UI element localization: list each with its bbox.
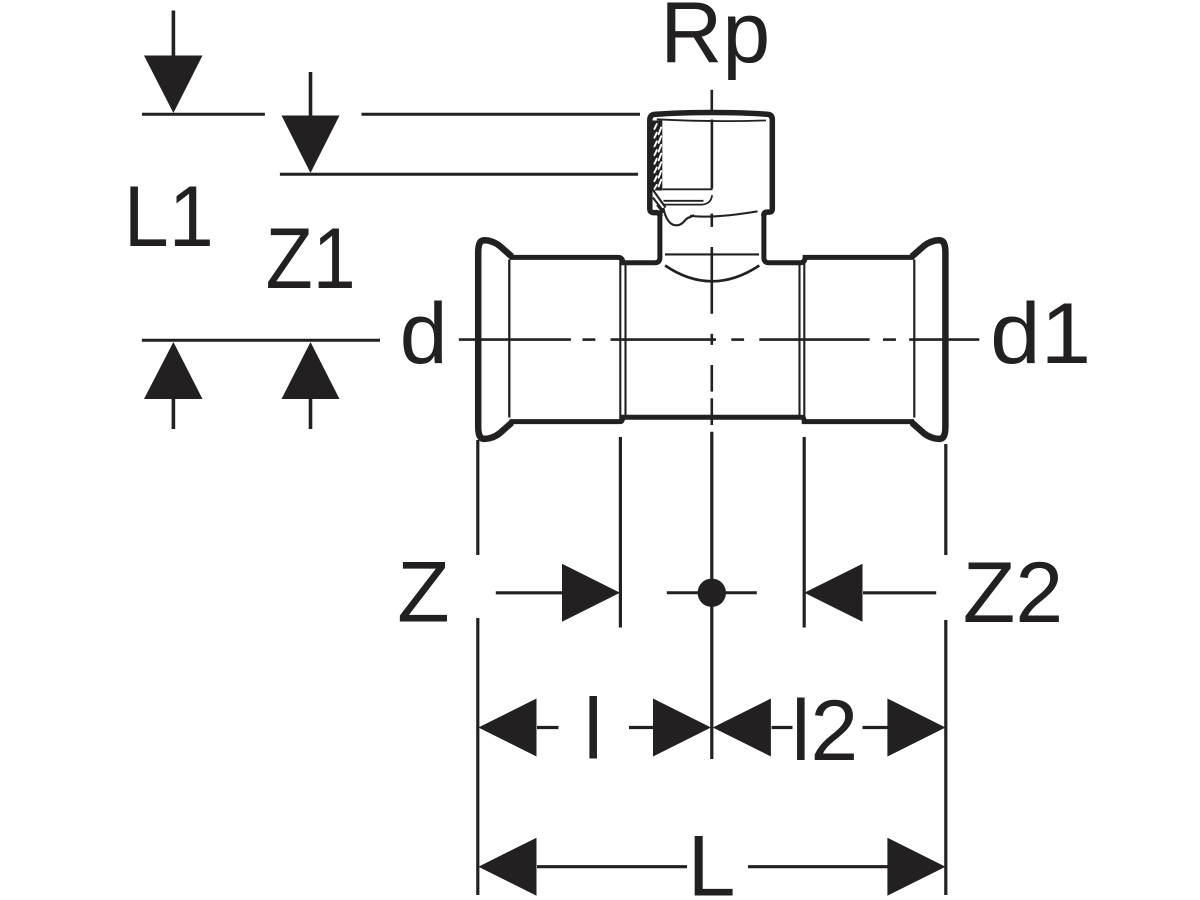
extension line at left fitting end x=478: [476, 440, 479, 895]
label l: [584, 682, 603, 778]
fitting outline: bottom edge (sockets and body): [510, 417, 915, 421]
extension line at left press depth x=620: [619, 437, 622, 628]
horizontal centreline (dash-dot) of the tee body: [459, 338, 980, 341]
svg-text:l2: l2: [791, 683, 858, 779]
dimension arrow l right (points right at centre): [629, 699, 711, 757]
broken-out section wavy line: [663, 208, 694, 226]
svg-text:Rp: Rp: [660, 0, 770, 81]
label d1 (right outlet diameter): [990, 286, 1091, 382]
thread band (dark wall with white thread slashes): [652, 121, 662, 191]
right cap inner edge line: [913, 260, 915, 418]
dimension arrow Z1 bottom (up arrow at centre plane): [282, 342, 340, 429]
dimension arrow L1 top (down arrow at fitting top plane): [144, 11, 203, 114]
branch socket bottom silhouette arc: [690, 211, 758, 216]
dimension arrow L left: [478, 838, 687, 896]
label L: [688, 819, 736, 900]
dimension arrow Z1 top (down arrow at thread end plane): [282, 72, 340, 173]
svg-text:Z2: Z2: [963, 545, 1063, 641]
dimension arrow Z2 (points left at press depth line): [804, 564, 936, 622]
extension line at right press depth x=804: [803, 437, 806, 628]
branch bore edge line (cut boundary at centreline): [711, 120, 714, 189]
fitting outline: left profile (socket top edge, step, body top edge, neck corner): [510, 214, 660, 263]
branch-body intersection arc: [665, 266, 759, 282]
svg-text:Z: Z: [397, 545, 450, 641]
svg-text:d: d: [400, 286, 448, 382]
label L1: [124, 169, 214, 265]
extension line at right fitting end x=946: [944, 444, 947, 895]
label Z2: [963, 545, 1063, 641]
thread relief groove line b with hook: [664, 195, 713, 204]
dimension line at thread end plane y=174: [280, 173, 638, 176]
dimension arrow L1 bottom (up arrow at centre plane): [144, 342, 203, 429]
branch bore bottom edge: [663, 188, 713, 190]
label d (left outlet diameter): [400, 286, 448, 382]
label Rp (branch thread designation): [660, 0, 770, 81]
thread bottom closing diagonals: [653, 190, 666, 213]
left bead transition line a: [619, 259, 621, 421]
left cap inner edge line: [508, 260, 510, 418]
svg-text:L1: L1: [124, 169, 214, 265]
fitting outline: branch threaded socket (Rp muff): [650, 113, 773, 217]
left press socket end cap (bead): [478, 240, 512, 439]
dimension line at centre plane left y=340: [142, 339, 380, 342]
thread relief groove line a: [664, 200, 704, 202]
right bead transition line b: [803, 259, 805, 421]
dimension arrow l left (points left at fitting end): [478, 699, 558, 757]
svg-text:l: l: [584, 682, 603, 778]
dimension arrow l2 right (points right at fitting end): [863, 699, 946, 757]
svg-text:d1: d1: [990, 286, 1091, 382]
vertical centreline (dash-dot) of the branch: [710, 90, 713, 425]
branch socket inner top edge arc: [657, 119, 766, 121]
body silhouette line across branch opening: [665, 253, 759, 255]
node dot at branch centre (common origin of Z and Z2): [667, 579, 757, 607]
left bead transition line b: [624, 264, 626, 416]
svg-text:Z1: Z1: [266, 211, 356, 307]
dimension arrow L right: [748, 838, 946, 896]
dimension arrow Z (points right at press depth line): [496, 564, 620, 622]
right bead transition line a: [798, 264, 800, 416]
label l2: [791, 683, 858, 779]
label Z1: [266, 211, 356, 307]
fitting outline: right profile (neck corner, body top edge, step, socket top edge): [764, 214, 914, 263]
dimension line at branch top plane y=114: [142, 113, 640, 116]
svg-text:L: L: [688, 819, 736, 900]
label Z: [397, 545, 450, 641]
dimension arrow l2 left (points left at centre): [713, 699, 793, 757]
right press socket end cap (bead): [912, 240, 946, 439]
extension line at branch centre x=712: [710, 432, 713, 759]
